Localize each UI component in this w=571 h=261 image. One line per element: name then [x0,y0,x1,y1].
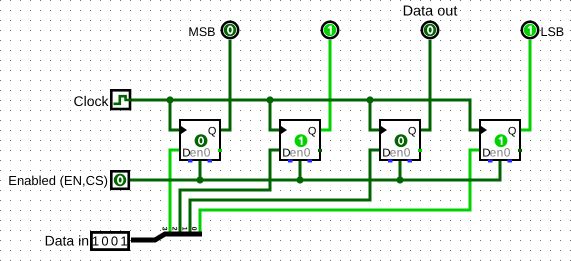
svg-text:2: 2 [170,227,177,231]
svg-text:Enabled (EN,CS): Enabled (EN,CS) [8,173,108,188]
svg-text:1: 1 [180,227,187,231]
svg-text:en0: en0 [190,145,211,159]
svg-text:3: 3 [160,227,167,231]
svg-text:Data in: Data in [45,232,89,248]
svg-text:en0: en0 [390,145,411,159]
svg-text:Q: Q [208,125,217,137]
svg-text:MSB: MSB [188,25,215,39]
svg-text:0: 0 [111,233,118,248]
svg-text:en0: en0 [290,145,311,159]
svg-text:Data out: Data out [403,4,458,20]
svg-text:Q: Q [408,125,417,137]
svg-text:Clock: Clock [73,93,109,109]
svg-text:1: 1 [120,233,127,248]
svg-text:Q: Q [508,125,517,137]
svg-text:0: 0 [190,227,197,231]
svg-text:0: 0 [101,233,108,248]
svg-text:en0: en0 [490,145,511,159]
svg-text:Q: Q [308,125,317,137]
svg-text:1: 1 [92,233,99,248]
svg-text:LSB: LSB [541,25,565,39]
